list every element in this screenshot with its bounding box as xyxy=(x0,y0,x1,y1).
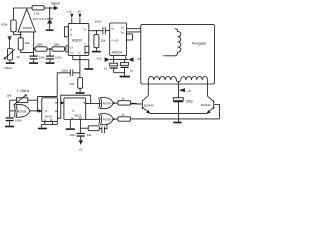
svg-text:220p: 220p xyxy=(186,100,193,104)
wire to signal node xyxy=(44,7,54,9)
svg-text:+15: +15 xyxy=(96,57,102,61)
svg-text:2N2440: 2N2440 xyxy=(201,103,211,107)
wire carrier to AD630 xyxy=(38,73,71,97)
svg-text:Cm: Cm xyxy=(70,47,74,49)
svg-text:10k: 10k xyxy=(25,41,30,45)
flip-flop U6 4013 xyxy=(64,98,86,120)
capacitor C10 snubber xyxy=(99,124,107,133)
potentiometer P1 2k Offset xyxy=(3,49,20,61)
flip-flop U5 4013 xyxy=(42,98,58,122)
svg-text:4070B: 4070B xyxy=(18,109,26,113)
capacitor C5 1u xyxy=(121,60,134,76)
wire between resistors xyxy=(47,48,52,50)
ground (C1) xyxy=(29,62,38,64)
wire 4013b ground stub xyxy=(69,120,71,129)
supply +5 arrow (bottom) xyxy=(79,137,83,152)
svg-text:10k: 10k xyxy=(6,93,11,97)
capacitor C1 100n xyxy=(30,49,46,62)
svg-text:100n: 100n xyxy=(39,56,46,60)
svg-text:Fluxgate: Fluxgate xyxy=(192,41,206,45)
wire 4013b Q to gate1 xyxy=(86,103,101,105)
xor gate U8 4070B lower xyxy=(99,114,114,125)
svg-text:AD524: AD524 xyxy=(112,51,122,55)
ground (zener) xyxy=(46,29,54,31)
node inverting input junction xyxy=(20,34,22,36)
ground (4013a) xyxy=(38,128,47,130)
wire emitter rail xyxy=(150,113,207,115)
wire R9 to Q1 base xyxy=(131,102,142,105)
resistor R6 10k xyxy=(94,31,106,51)
svg-text:G=100: G=100 xyxy=(112,41,120,43)
wire osc feedback xyxy=(37,96,39,111)
svg-text:100k: 100k xyxy=(53,42,60,46)
xor gate U7 4070B upper xyxy=(99,98,114,109)
fluxgate sensor box xyxy=(141,24,215,84)
wire into AD630 xyxy=(65,48,66,50)
svg-text:1k: 1k xyxy=(121,97,125,101)
svg-text:100n: 100n xyxy=(61,68,68,72)
svg-text:AD630: AD630 xyxy=(72,38,82,42)
capacitor C9 100n supply xyxy=(69,133,84,137)
ground (AD630) xyxy=(84,68,93,70)
svg-text:2k: 2k xyxy=(17,55,21,59)
resistor R2 100k xyxy=(1,8,21,35)
wire chain xyxy=(34,48,35,50)
resistor R5 100k xyxy=(52,42,65,51)
node output junction xyxy=(96,30,98,32)
svg-text:4070B: 4070B xyxy=(103,102,111,106)
resistor R11 10k carrier xyxy=(70,73,83,92)
supply +15 arrow (AD524) xyxy=(96,57,109,62)
xor gate U4 4070B oscillator xyxy=(14,105,30,118)
svg-text:100n: 100n xyxy=(15,118,22,122)
wire AD630 bottom pins xyxy=(73,56,89,69)
wire coil right end xyxy=(207,80,209,96)
supply -15 arrow (AD524) xyxy=(129,57,142,62)
wire AD524 supply rail xyxy=(110,59,129,61)
signal output arrow xyxy=(51,2,60,11)
transistor Q1 2N2440 xyxy=(131,95,154,113)
pin tab box AD524 right xyxy=(127,34,133,40)
svg-text:ZPY 5.6 V: ZPY 5.6 V xyxy=(33,17,47,21)
pin tab box AD630 lower left xyxy=(66,46,68,52)
ground (supply caps) xyxy=(120,76,130,78)
supply arrow (offset) xyxy=(8,37,12,49)
wire gate1 output xyxy=(113,102,118,104)
svg-text:2.2k: 2.2k xyxy=(34,11,40,15)
wire sense A xyxy=(127,28,175,30)
node rail junction xyxy=(178,113,180,115)
node gate2 output junction xyxy=(113,118,115,120)
svg-text:Offset: Offset xyxy=(4,66,12,70)
node chain junction 2 xyxy=(49,48,51,50)
svg-text:+15: +15 xyxy=(66,10,72,14)
svg-text:100n: 100n xyxy=(69,133,76,137)
wire center tap xyxy=(178,81,180,98)
svg-text:-15: -15 xyxy=(76,10,81,14)
svg-text:1u: 1u xyxy=(130,68,134,72)
transistor Q2 2N2440 xyxy=(201,96,220,119)
ground (C2) xyxy=(46,62,55,64)
wire non-inverting input to chain xyxy=(33,32,35,49)
svg-text:100k: 100k xyxy=(1,22,8,26)
clock arrow into 4013a xyxy=(39,109,43,113)
node clock junction xyxy=(60,102,62,104)
ground (4013b) xyxy=(66,128,75,130)
ground (drive stage) xyxy=(173,122,181,124)
svg-text:2N2440: 2N2440 xyxy=(144,103,154,107)
wire +5 node stub xyxy=(79,120,81,133)
wire gate2 output xyxy=(113,118,118,120)
wire 4013a Q to bus xyxy=(57,95,90,118)
resistor R10 1k xyxy=(118,113,131,122)
wire AD524 bottom stubs xyxy=(114,55,126,63)
resistor R3 10k xyxy=(18,38,33,53)
svg-text:4070B: 4070B xyxy=(103,118,111,122)
ground (R6) xyxy=(92,51,101,53)
svg-text:4013: 4013 xyxy=(45,114,52,118)
wire osc output xyxy=(30,110,39,112)
wire coil left end xyxy=(147,80,149,95)
wire to 4013b clock xyxy=(60,102,62,104)
trimmer R7 10k xyxy=(6,93,37,105)
wire 4013a ground pins xyxy=(42,122,58,128)
wire osc input column xyxy=(9,100,11,117)
svg-text:10k: 10k xyxy=(70,82,75,86)
svg-text:f. 20kHz: f. 20kHz xyxy=(17,89,30,93)
capacitor C8 100n carrier xyxy=(61,60,80,76)
svg-text:Signal: Signal xyxy=(51,2,60,6)
svg-text:100n: 100n xyxy=(95,20,102,24)
svg-text:+5: +5 xyxy=(187,89,191,93)
capacitor C3 100n coupling xyxy=(95,20,110,35)
node signal junction xyxy=(49,7,51,9)
wire inverting input stub xyxy=(20,32,22,38)
instrumentation amp U3 AD524 xyxy=(110,23,127,55)
op-amp U1 AD548 xyxy=(18,9,35,32)
capacitor C2 100n xyxy=(46,49,62,62)
node osc output junction xyxy=(37,110,39,112)
wire feedback top xyxy=(13,7,32,9)
capacitor C4 1u xyxy=(104,63,118,72)
wire 4013b corner pin to gate2 xyxy=(86,118,101,120)
supply +5 arrow (center tap) xyxy=(179,88,191,93)
resistor R4 100k xyxy=(35,42,47,51)
capacitor C6 220p xyxy=(173,98,193,122)
svg-text:100k: 100k xyxy=(36,42,43,46)
op-amp U2 AD630 xyxy=(68,23,89,55)
svg-text:1k: 1k xyxy=(121,113,125,117)
supply +15 arrow (AD630) xyxy=(66,10,73,24)
svg-text:Cm: Cm xyxy=(70,52,74,54)
svg-text:10k: 10k xyxy=(87,133,92,137)
ground (pot) xyxy=(4,60,15,70)
ground (R11) xyxy=(76,92,85,94)
clock arrow into 4013b xyxy=(61,101,64,104)
wire R10 to Q2 base xyxy=(131,118,220,120)
resistor R8 10k xyxy=(80,126,99,137)
drive winding L2 right xyxy=(181,76,208,80)
resistor R9 1k xyxy=(118,97,131,106)
resistor R1 2.2k xyxy=(32,6,44,16)
node chain junction 1 xyxy=(33,48,35,50)
node gate1 input junction xyxy=(90,103,92,105)
pin tab box AD630 right xyxy=(85,46,89,52)
drive winding L2 left xyxy=(148,77,180,82)
wire caps common xyxy=(114,72,125,74)
node gate1 output junction xyxy=(113,102,115,104)
svg-text:10k: 10k xyxy=(101,38,106,42)
svg-text:1u: 1u xyxy=(104,67,108,71)
svg-text:AD548: AD548 xyxy=(23,26,33,30)
wire osc gate input xyxy=(10,110,16,112)
capacitor C7 100n osc xyxy=(6,117,22,125)
wire AD630 output xyxy=(89,30,103,32)
zener diode D1 ZPY 5.6V xyxy=(33,8,53,29)
svg-text:100n: 100n xyxy=(55,56,62,60)
wire sense B xyxy=(127,32,164,56)
ground (C7) xyxy=(5,126,14,128)
supply -15 arrow (AD630) xyxy=(76,10,81,24)
pin tab box AD630 upper left xyxy=(64,27,68,37)
sense coil L1 xyxy=(163,29,181,56)
svg-text:+5: +5 xyxy=(79,148,83,152)
